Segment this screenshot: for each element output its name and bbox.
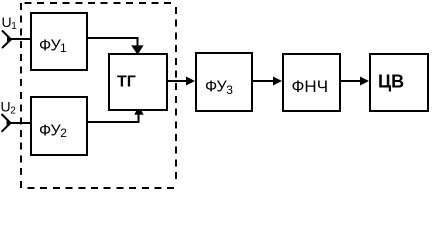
- svg-text:ФУ: ФУ: [205, 79, 227, 96]
- arrowhead into FNCh: [273, 77, 282, 86]
- svg-text:ФУ: ФУ: [39, 38, 61, 55]
- wire FU3 to FNCh: [252, 80, 275, 82]
- svg-text:ТГ: ТГ: [117, 73, 136, 90]
- label FU1: [39, 38, 67, 56]
- label FU3: [205, 79, 233, 97]
- block TsV: [370, 54, 428, 111]
- svg-text:U: U: [1, 99, 11, 115]
- dashed enclosure left edge: [20, 3, 22, 189]
- block FU2: [31, 97, 87, 155]
- arrowhead into TG bottom: [134, 105, 143, 115]
- dashed enclosure bottom edge: [28, 187, 178, 189]
- svg-text:3: 3: [226, 83, 233, 97]
- svg-text:ЦВ: ЦВ: [378, 71, 404, 91]
- svg-text:ФУ: ФУ: [39, 122, 61, 139]
- arrowhead into TG top: [131, 45, 143, 54]
- input U1 label: [2, 14, 18, 32]
- svg-text:ФНЧ: ФНЧ: [292, 77, 329, 96]
- block FNCh: [283, 54, 340, 111]
- wire FNCh to TsV: [340, 80, 362, 82]
- wire FU2 to TG: [87, 114, 139, 122]
- wire TG to FU3: [167, 80, 188, 82]
- wire U1 to FU1: [11, 38, 31, 40]
- svg-text:1: 1: [60, 41, 67, 55]
- dashed enclosure right edge: [175, 7, 177, 183]
- wire FU1 to TG: [87, 38, 138, 46]
- input U2 label: [1, 99, 17, 117]
- arrowhead into FU3: [186, 77, 195, 86]
- block FU1: [31, 13, 87, 70]
- svg-text:2: 2: [60, 126, 67, 140]
- dashed enclosure top edge: [25, 2, 177, 4]
- svg-text:U: U: [2, 14, 12, 30]
- svg-text:1: 1: [11, 21, 17, 32]
- block FU3: [196, 53, 252, 111]
- wire U2 to FU2: [10, 122, 31, 124]
- input U2 arrow: [2, 114, 13, 132]
- svg-text:2: 2: [10, 106, 16, 117]
- arrowhead into TsV: [360, 77, 369, 86]
- input U1 arrow: [2, 31, 13, 49]
- block TG: [109, 54, 167, 110]
- label FU2: [39, 122, 67, 140]
